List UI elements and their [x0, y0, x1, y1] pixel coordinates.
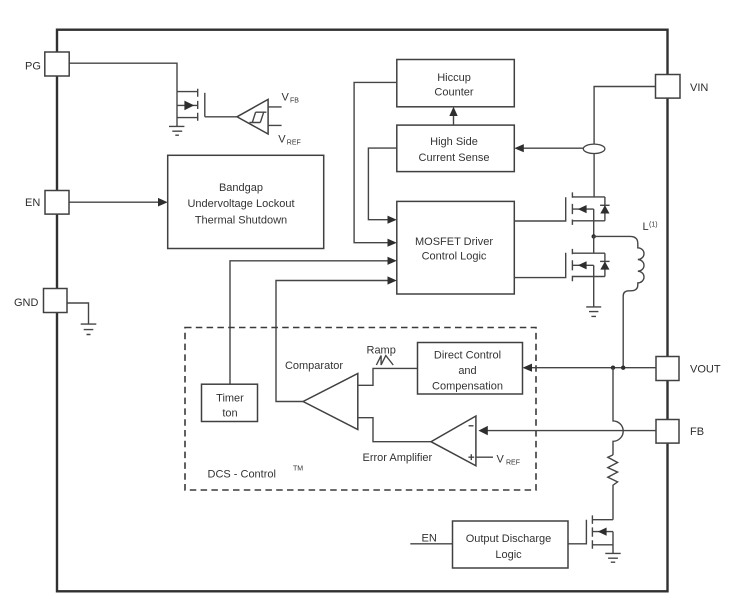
svg-text:Counter: Counter	[434, 87, 473, 99]
source stub	[572, 276, 605, 278]
node V_FB label	[282, 92, 300, 105]
svg-text:(1): (1)	[649, 222, 658, 229]
wire comparator lower input from error amp output	[358, 418, 431, 442]
drain stub	[572, 252, 605, 254]
wire EN to bandgap with arrow	[69, 198, 168, 207]
svg-text:GND: GND	[14, 297, 39, 309]
block High Side Current Sense	[397, 125, 515, 172]
block Bandgap / UVLO / Thermal Shutdown	[168, 155, 324, 248]
svg-text:Bandgap: Bandgap	[219, 182, 263, 194]
wire VOUT line to Direct Control with arrow	[523, 364, 657, 372]
body diode branch	[604, 197, 606, 221]
transistor PG open-drain MOSFET	[177, 89, 205, 127]
svg-text:Logic: Logic	[495, 549, 522, 561]
wire VREF to plus input	[476, 456, 493, 458]
node L(1) label	[643, 221, 658, 233]
channel dashes	[197, 89, 199, 121]
wire High Side loop to driver input 1	[368, 148, 396, 224]
source down to ground	[593, 265, 595, 307]
block Timer ton	[202, 384, 258, 421]
gate lead from driver	[514, 253, 565, 278]
hysteresis glyph	[249, 112, 266, 122]
wire sense to High Side box with arrow	[514, 144, 583, 152]
svg-text:V: V	[282, 92, 290, 104]
resistor feedback divider	[608, 455, 618, 520]
svg-text:V: V	[497, 453, 505, 465]
plus input mark	[468, 454, 474, 460]
wire High Side to Hiccup arrow	[449, 107, 457, 125]
node VOUT pin	[656, 357, 721, 381]
transistor low-side MOSFET	[514, 236, 609, 307]
block Direct Control and Compensation	[418, 343, 523, 395]
node VIN pin	[656, 75, 709, 99]
wire Timer to driver input 3	[230, 257, 397, 384]
wire VOUT down with hop over FB	[613, 368, 623, 455]
svg-text:EN: EN	[422, 533, 437, 545]
node EN pin	[25, 191, 69, 215]
minus input mark	[469, 425, 474, 427]
source stub	[592, 544, 613, 546]
svg-text:Comparator: Comparator	[285, 360, 343, 372]
current sense oval	[583, 144, 605, 153]
channel dashes	[571, 249, 573, 281]
op-amp comparator DCS	[285, 360, 358, 430]
svg-text:FB: FB	[690, 426, 704, 438]
svg-text:Timer: Timer	[216, 392, 244, 404]
gate lead	[568, 520, 586, 544]
node DCS-Control label	[208, 466, 304, 481]
body arrow	[184, 101, 194, 111]
gate lead from driver	[514, 197, 565, 221]
node V_REF label error amp	[497, 453, 521, 466]
svg-text:PG: PG	[25, 60, 41, 72]
svg-text:Error Amplifier: Error Amplifier	[363, 452, 433, 464]
transistor high-side MOSFET	[514, 192, 609, 236]
wire comparator upper input to Direct Control with ramp	[358, 344, 418, 385]
source stub	[177, 117, 198, 119]
left vertical (drain/body/source rail)	[176, 92, 178, 127]
drain stub	[592, 519, 613, 521]
block Output Discharge Logic	[453, 521, 569, 568]
svg-text:VOUT: VOUT	[690, 364, 721, 376]
svg-text:Thermal Shutdown: Thermal Shutdown	[195, 214, 287, 226]
svg-text:ton: ton	[222, 407, 237, 419]
wire GND pin to ground	[67, 303, 89, 324]
inductor L1	[594, 236, 644, 367]
svg-text:EN: EN	[25, 197, 40, 209]
body stub	[177, 104, 198, 106]
op-amp PG comparator with hysteresis	[237, 99, 282, 134]
svg-text:TM: TM	[293, 466, 303, 473]
body/source down to ground	[612, 532, 614, 554]
input stubs	[268, 107, 282, 126]
svg-text:Hiccup: Hiccup	[437, 72, 471, 84]
drain stub	[572, 196, 605, 198]
node switch node junction	[592, 234, 596, 238]
wire VIN to sense	[594, 87, 655, 145]
svg-text:Control Logic: Control Logic	[422, 251, 487, 263]
svg-text:V: V	[278, 134, 286, 146]
body arrow	[578, 261, 587, 269]
wire FB to error amp minus with arrow	[478, 426, 656, 435]
drain up to switch node	[593, 236, 595, 253]
block Hiccup Counter	[397, 60, 515, 107]
svg-text:REF: REF	[506, 459, 520, 466]
body diode branch	[604, 253, 606, 276]
body arrow	[578, 205, 587, 213]
wire PG output	[69, 63, 177, 91]
wire Hiccup loop to driver input 2	[354, 82, 397, 246]
drain stub	[177, 91, 198, 93]
wire EN to Output Discharge Logic	[410, 543, 452, 545]
body stub	[572, 208, 593, 210]
source down to switch node	[593, 209, 595, 236]
node FB pin	[656, 420, 704, 444]
ground under low-side MOSFET	[586, 307, 601, 317]
svg-text:REF: REF	[287, 140, 301, 147]
ramp sawtooth glyph	[376, 356, 393, 366]
svg-text:Direct Control: Direct Control	[434, 350, 501, 362]
node PG pin	[25, 52, 69, 76]
body stub	[572, 264, 593, 266]
ground at GND pin	[81, 324, 97, 334]
svg-text:MOSFET Driver: MOSFET Driver	[415, 236, 493, 248]
wire oval to HS drain	[593, 154, 595, 197]
gate plate	[204, 93, 206, 117]
source stub	[572, 220, 605, 222]
ground under PG MOSFET	[169, 126, 184, 135]
svg-text:Undervoltage Lockout: Undervoltage Lockout	[187, 198, 294, 210]
node GND pin	[14, 289, 67, 313]
body stub	[592, 531, 613, 533]
dashed DCS-Control box	[185, 328, 536, 491]
svg-text:Current Sense: Current Sense	[419, 152, 490, 164]
wire gate to comparator	[205, 116, 237, 118]
block MOSFET Driver Control Logic	[397, 201, 515, 294]
outer IC border	[57, 30, 668, 592]
transistor output discharge MOSFET	[568, 515, 613, 553]
svg-text:Output Discharge: Output Discharge	[466, 533, 552, 545]
svg-text:L: L	[643, 221, 649, 233]
svg-text:VIN: VIN	[690, 82, 708, 94]
svg-text:Compensation: Compensation	[432, 381, 503, 393]
node V_REF label	[278, 134, 301, 147]
svg-text:Ramp: Ramp	[367, 344, 396, 356]
svg-text:DCS - Control: DCS - Control	[208, 468, 276, 480]
svg-text:and: and	[458, 365, 476, 377]
svg-text:FB: FB	[290, 98, 299, 105]
body arrow	[598, 528, 607, 536]
svg-text:High Side: High Side	[430, 136, 478, 148]
wire comparator output to driver input 4	[276, 276, 397, 401]
ground under discharge MOSFET	[605, 553, 620, 562]
channel dashes	[571, 192, 573, 225]
node VOUT junction dots	[611, 366, 615, 370]
op-amp error amplifier	[363, 416, 476, 466]
channel dashes	[591, 515, 593, 548]
